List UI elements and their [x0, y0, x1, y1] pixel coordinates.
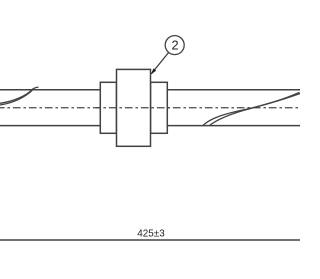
left break line curve lower [0, 90, 33, 105]
shaft bottom line left segment [0, 125, 100, 127]
svg-text:2: 2 [171, 38, 178, 53]
leader arrowhead [151, 68, 156, 74]
right break line curve 2 [210, 92, 300, 125]
shaft top line left segment [0, 89, 100, 91]
balloon circle for item 2 [165, 36, 184, 55]
right collar rectangle of bushing [151, 82, 168, 133]
svg-text:425±3: 425±3 [137, 229, 165, 240]
shaft bottom line right segment [167, 125, 300, 127]
shaft top line right segment [167, 89, 300, 91]
leader line from balloon to part [151, 52, 168, 73]
dimension line 425±3 [0, 239, 300, 241]
left break line curve upper [0, 87, 39, 103]
centerline through bushing (redraw over white rects) [96, 107, 172, 109]
central body rectangle of bushing (item 2) [117, 69, 151, 146]
left collar rectangle of bushing [100, 82, 116, 133]
right break line curve 1 [203, 94, 300, 126]
centerline (dash-dot axis of shaft) [0, 107, 300, 109]
